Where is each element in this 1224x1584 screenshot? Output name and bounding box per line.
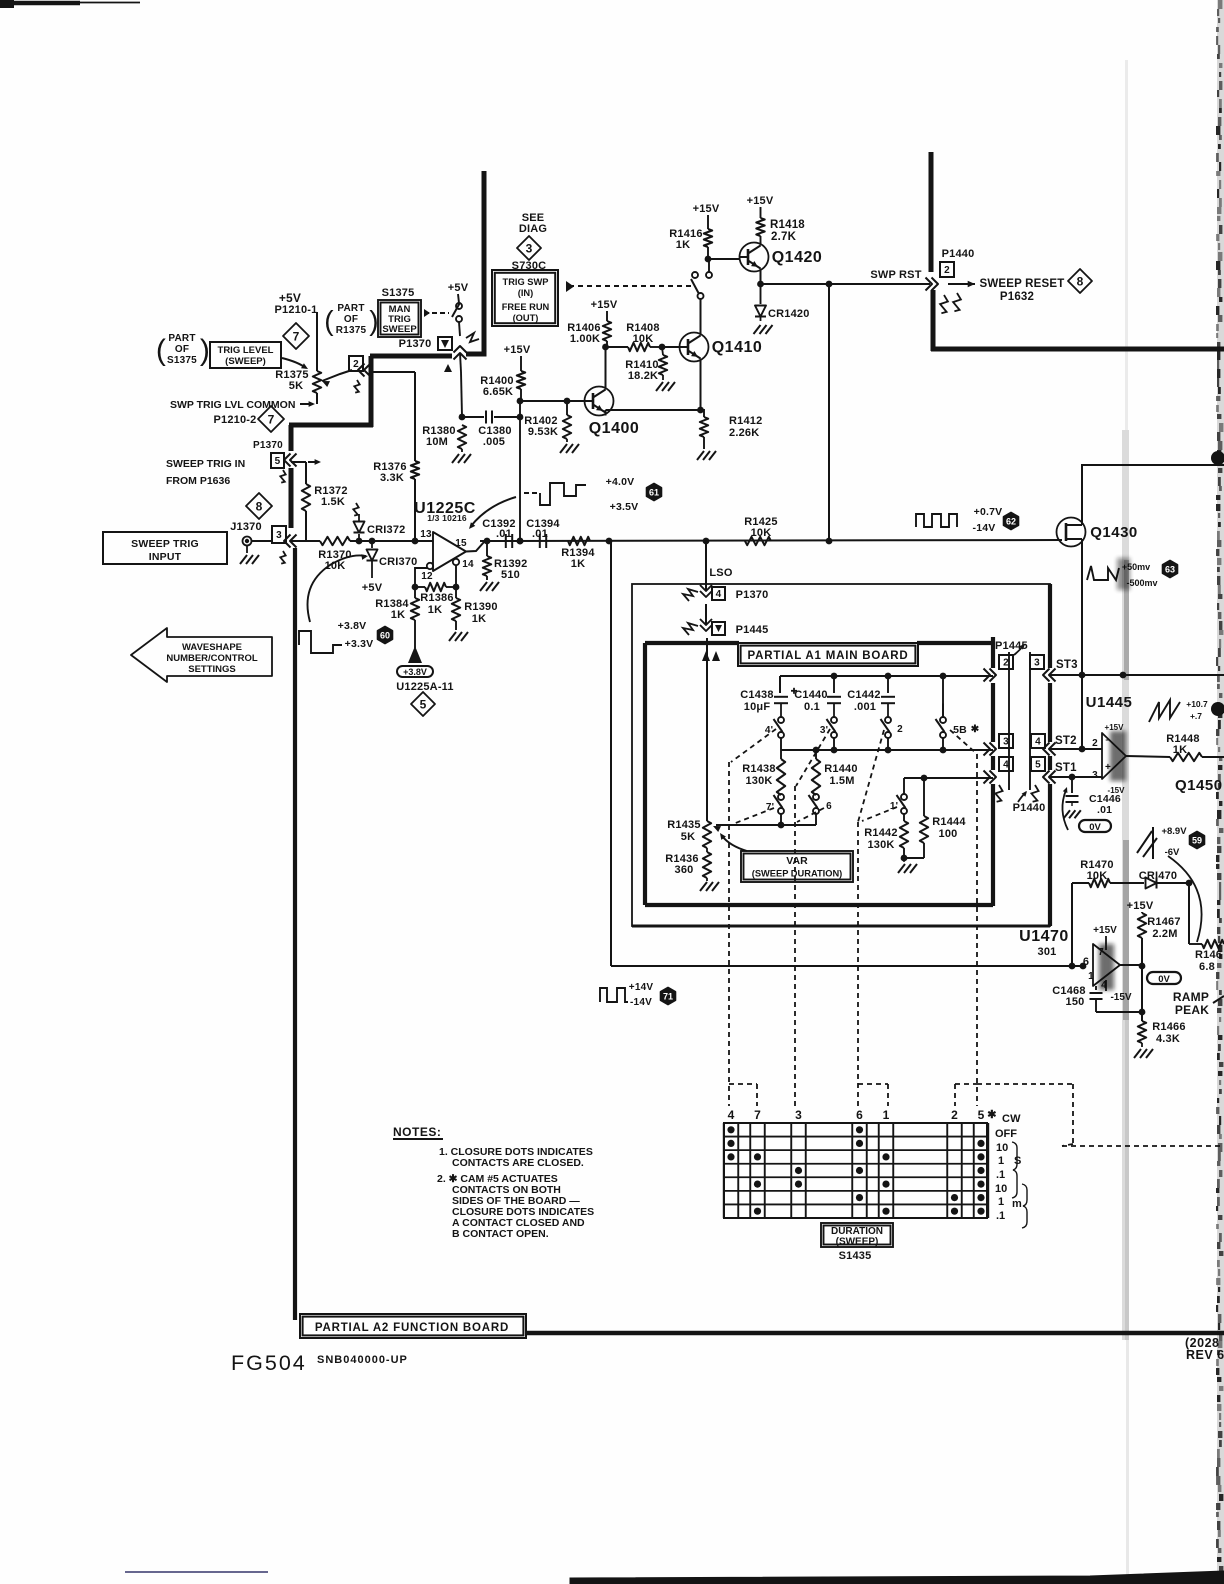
svg-text:12: 12 bbox=[421, 571, 433, 582]
svg-text:5: 5 bbox=[1035, 760, 1041, 771]
svg-text:VAR: VAR bbox=[786, 855, 808, 867]
svg-text:U1225A-11: U1225A-11 bbox=[396, 681, 453, 693]
svg-text:CONTACTS ARE CLOSED.: CONTACTS ARE CLOSED. bbox=[452, 1157, 584, 1169]
svg-text:CR1420: CR1420 bbox=[768, 308, 810, 320]
svg-text:150: 150 bbox=[1066, 996, 1085, 1008]
svg-text:P1632: P1632 bbox=[1000, 291, 1034, 303]
svg-text:OFF: OFF bbox=[995, 1128, 1017, 1140]
svg-text:P1445: P1445 bbox=[736, 624, 769, 636]
svg-text:+14V: +14V bbox=[629, 982, 654, 993]
svg-text:7: 7 bbox=[754, 1108, 761, 1122]
svg-text:15: 15 bbox=[455, 538, 467, 549]
svg-text:.01: .01 bbox=[532, 528, 548, 540]
svg-text:+15V: +15V bbox=[693, 203, 720, 215]
svg-text:ST2: ST2 bbox=[1055, 735, 1077, 747]
svg-text:1K: 1K bbox=[391, 609, 405, 621]
svg-text:+3.3V: +3.3V bbox=[345, 638, 374, 650]
svg-text:130K: 130K bbox=[745, 775, 772, 787]
svg-text:DURATION: DURATION bbox=[831, 1226, 883, 1237]
svg-text:4: 4 bbox=[728, 1108, 735, 1122]
svg-text:SETTINGS: SETTINGS bbox=[188, 664, 236, 675]
svg-text:NOTES:: NOTES: bbox=[393, 1125, 441, 1139]
svg-text:R1438: R1438 bbox=[742, 763, 775, 775]
svg-text:-15V: -15V bbox=[1108, 786, 1126, 795]
svg-text:3: 3 bbox=[1003, 737, 1009, 748]
svg-text:8: 8 bbox=[256, 499, 263, 513]
svg-text:R1418: R1418 bbox=[770, 219, 805, 231]
svg-text:SWEEP TRIG IN: SWEEP TRIG IN bbox=[166, 458, 245, 470]
svg-text:0V: 0V bbox=[1089, 822, 1101, 833]
svg-text:0.1: 0.1 bbox=[804, 701, 820, 713]
svg-text:SWEEP RESET: SWEEP RESET bbox=[979, 278, 1064, 290]
svg-text:2: 2 bbox=[951, 1108, 958, 1122]
svg-text:C1442: C1442 bbox=[847, 689, 880, 701]
svg-text:R1440: R1440 bbox=[824, 763, 857, 775]
svg-text:7: 7 bbox=[293, 329, 300, 343]
svg-text:2.26K: 2.26K bbox=[729, 427, 759, 439]
svg-text:0V: 0V bbox=[1158, 974, 1170, 985]
svg-text:P1210-1: P1210-1 bbox=[275, 304, 318, 316]
svg-text:m: m bbox=[1012, 1198, 1022, 1210]
svg-text:2: 2 bbox=[1092, 738, 1098, 749]
svg-text:R1467: R1467 bbox=[1147, 916, 1180, 928]
svg-text:510: 510 bbox=[501, 569, 520, 581]
svg-text:+10.7: +10.7 bbox=[1186, 699, 1208, 709]
svg-text:1.5K: 1.5K bbox=[321, 496, 345, 508]
svg-text:360: 360 bbox=[675, 864, 694, 876]
svg-text:R146: R146 bbox=[1195, 949, 1222, 961]
svg-text:2: 2 bbox=[944, 265, 950, 276]
svg-text:INPUT: INPUT bbox=[149, 551, 182, 563]
svg-text:10K: 10K bbox=[633, 333, 654, 345]
svg-text:OF: OF bbox=[175, 344, 189, 355]
svg-text:4: 4 bbox=[1035, 737, 1041, 748]
svg-text:10: 10 bbox=[996, 1142, 1008, 1154]
svg-text:100: 100 bbox=[939, 828, 958, 840]
svg-text:+15V: +15V bbox=[504, 344, 531, 356]
svg-text:R1466: R1466 bbox=[1152, 1021, 1185, 1033]
svg-text:3: 3 bbox=[276, 530, 282, 541]
svg-text:2.2M: 2.2M bbox=[1152, 928, 1177, 940]
svg-text:FG504: FG504 bbox=[231, 1351, 307, 1375]
svg-text:5: 5 bbox=[420, 697, 427, 711]
svg-text:1': 1' bbox=[890, 801, 898, 812]
svg-text:1.5M: 1.5M bbox=[829, 775, 854, 787]
svg-text:5K: 5K bbox=[681, 831, 695, 843]
svg-text:71: 71 bbox=[663, 991, 673, 1001]
svg-text:OF: OF bbox=[344, 314, 358, 325]
svg-text:301: 301 bbox=[1038, 946, 1057, 958]
svg-text:PEAK: PEAK bbox=[1175, 1003, 1209, 1017]
svg-text:59: 59 bbox=[1192, 835, 1202, 845]
svg-text:U1445: U1445 bbox=[1086, 694, 1133, 711]
svg-text:FROM P1636: FROM P1636 bbox=[166, 475, 230, 487]
svg-text:1K: 1K bbox=[1173, 744, 1187, 756]
svg-text:ST3: ST3 bbox=[1056, 659, 1078, 671]
svg-text:S1375: S1375 bbox=[167, 355, 197, 366]
svg-text:−: − bbox=[1105, 735, 1110, 745]
svg-text:9.53K: 9.53K bbox=[528, 426, 558, 438]
svg-text:3': 3' bbox=[820, 725, 828, 736]
svg-text:63: 63 bbox=[1165, 564, 1175, 574]
svg-text:TRIG SWP: TRIG SWP bbox=[503, 277, 549, 287]
svg-text:WAVESHAPE: WAVESHAPE bbox=[182, 642, 242, 653]
svg-text:S1375: S1375 bbox=[382, 287, 415, 299]
svg-text:SNB040000-UP: SNB040000-UP bbox=[317, 1354, 408, 1366]
svg-text:130K: 130K bbox=[867, 839, 894, 851]
svg-text:2.7K: 2.7K bbox=[771, 231, 797, 243]
svg-text:CRI372: CRI372 bbox=[367, 524, 406, 536]
svg-text:18.2K: 18.2K bbox=[628, 370, 658, 382]
svg-text:1.00K: 1.00K bbox=[570, 333, 600, 345]
svg-text:SWEEP: SWEEP bbox=[382, 324, 417, 335]
svg-text:5: 5 bbox=[978, 1108, 985, 1122]
svg-text:1: 1 bbox=[1088, 971, 1094, 982]
svg-text:Q1430: Q1430 bbox=[1090, 524, 1138, 541]
svg-text:R1435: R1435 bbox=[667, 819, 700, 831]
svg-text:+4.0V: +4.0V bbox=[606, 476, 635, 488]
svg-text:+8.9V: +8.9V bbox=[1161, 826, 1187, 837]
svg-text:(IN): (IN) bbox=[518, 288, 534, 298]
svg-text:(SWEEP): (SWEEP) bbox=[836, 1237, 879, 1248]
svg-text:(: ( bbox=[324, 305, 334, 336]
svg-text:10: 10 bbox=[995, 1183, 1007, 1195]
svg-text:FREE RUN: FREE RUN bbox=[502, 302, 550, 312]
svg-text:P1370: P1370 bbox=[399, 338, 432, 350]
svg-text:P1210-2: P1210-2 bbox=[214, 414, 257, 426]
svg-text:3: 3 bbox=[526, 241, 533, 255]
svg-text:ST1: ST1 bbox=[1055, 762, 1077, 774]
svg-text:4': 4' bbox=[765, 725, 773, 736]
svg-text:(OUT): (OUT) bbox=[513, 313, 539, 323]
svg-text:✱: ✱ bbox=[987, 1109, 996, 1121]
svg-text:6: 6 bbox=[826, 801, 832, 812]
svg-text:CRI470: CRI470 bbox=[1139, 870, 1178, 882]
svg-text:+15V: +15V bbox=[1093, 925, 1117, 936]
svg-text:REV 6: REV 6 bbox=[1186, 1348, 1224, 1362]
svg-text:R1386: R1386 bbox=[420, 592, 453, 604]
svg-text:.01: .01 bbox=[1097, 804, 1112, 816]
svg-text:-14V: -14V bbox=[630, 997, 652, 1008]
svg-text:3: 3 bbox=[795, 1108, 802, 1122]
svg-text:+5V: +5V bbox=[362, 582, 383, 594]
svg-text:60: 60 bbox=[380, 630, 390, 640]
svg-text:3.3K: 3.3K bbox=[380, 472, 404, 484]
svg-text:.1: .1 bbox=[996, 1210, 1005, 1222]
svg-text:+3.8V: +3.8V bbox=[403, 667, 427, 677]
svg-text:+15V: +15V bbox=[747, 195, 774, 207]
svg-text:-14V: -14V bbox=[973, 522, 996, 534]
svg-text:SWEEP TRIG: SWEEP TRIG bbox=[131, 538, 199, 550]
svg-text:C1438: C1438 bbox=[740, 689, 773, 701]
svg-text:Q1410: Q1410 bbox=[712, 339, 763, 356]
svg-text:SWP RST: SWP RST bbox=[870, 269, 921, 281]
svg-text:P1370: P1370 bbox=[736, 589, 769, 601]
svg-text:1: 1 bbox=[998, 1196, 1004, 1208]
svg-text:Q1420: Q1420 bbox=[772, 249, 823, 266]
svg-text:R1444: R1444 bbox=[932, 816, 966, 828]
svg-text:4: 4 bbox=[1003, 760, 1009, 771]
svg-text:61: 61 bbox=[649, 487, 659, 497]
svg-text:+15V: +15V bbox=[1105, 723, 1125, 732]
svg-text:1K: 1K bbox=[472, 613, 486, 625]
svg-text:10K: 10K bbox=[751, 527, 772, 539]
svg-text:(: ( bbox=[156, 334, 166, 367]
svg-text:CRI370: CRI370 bbox=[379, 556, 418, 568]
svg-text:3: 3 bbox=[1034, 658, 1040, 669]
svg-text:LSO: LSO bbox=[709, 567, 732, 579]
svg-text:.005: .005 bbox=[483, 436, 505, 448]
svg-text:Q1450: Q1450 bbox=[1175, 777, 1223, 794]
svg-text:B CONTACT OPEN.: B CONTACT OPEN. bbox=[452, 1228, 549, 1240]
svg-text:4: 4 bbox=[716, 589, 722, 600]
svg-text:NUMBER/CONTROL: NUMBER/CONTROL bbox=[166, 653, 257, 664]
svg-text:+5V: +5V bbox=[448, 282, 469, 294]
svg-text:PARTIAL A2 FUNCTION BOARD: PARTIAL A2 FUNCTION BOARD bbox=[315, 1322, 509, 1334]
svg-text:R1375: R1375 bbox=[336, 325, 367, 336]
svg-text:+5V: +5V bbox=[279, 291, 301, 305]
svg-text:✱: ✱ bbox=[971, 724, 980, 735]
svg-text:): ) bbox=[200, 334, 210, 367]
svg-text:7: 7 bbox=[268, 412, 275, 426]
svg-text:6.8: 6.8 bbox=[1199, 961, 1215, 973]
svg-text:J1370: J1370 bbox=[230, 521, 262, 533]
svg-text:PARTIAL A1 MAIN BOARD: PARTIAL A1 MAIN BOARD bbox=[748, 650, 909, 662]
svg-text:RAMP: RAMP bbox=[1173, 990, 1209, 1004]
svg-text:6.65K: 6.65K bbox=[483, 386, 513, 398]
svg-text:1: 1 bbox=[883, 1108, 890, 1122]
svg-text:Q1400: Q1400 bbox=[589, 420, 640, 437]
svg-text:S1435: S1435 bbox=[839, 1250, 872, 1262]
svg-text:PART: PART bbox=[337, 303, 364, 314]
svg-text:10M: 10M bbox=[426, 436, 448, 448]
svg-text:+15V: +15V bbox=[591, 299, 618, 311]
svg-text:5: 5 bbox=[275, 456, 281, 467]
svg-text:P1440: P1440 bbox=[1013, 802, 1046, 814]
svg-text:(SWEEP): (SWEEP) bbox=[225, 356, 266, 367]
svg-text:10μF: 10μF bbox=[744, 701, 771, 713]
svg-text:SWP TRIG LVL COMMON: SWP TRIG LVL COMMON bbox=[170, 399, 295, 411]
svg-text:+3.5V: +3.5V bbox=[610, 501, 639, 513]
svg-text:PART: PART bbox=[168, 333, 195, 344]
svg-text:+.7: +.7 bbox=[1190, 711, 1202, 721]
svg-text:U1470: U1470 bbox=[1019, 928, 1069, 945]
svg-text:+3.8V: +3.8V bbox=[338, 620, 367, 632]
svg-text:4.3K: 4.3K bbox=[1156, 1033, 1180, 1045]
svg-text:C1440: C1440 bbox=[794, 689, 827, 701]
svg-text:1/3 10216: 1/3 10216 bbox=[427, 513, 467, 523]
svg-text:10K: 10K bbox=[1087, 870, 1108, 882]
svg-text:R1442: R1442 bbox=[864, 827, 897, 839]
svg-text:5B: 5B bbox=[953, 724, 967, 736]
svg-text:-15V: -15V bbox=[1110, 992, 1131, 1003]
svg-text:P1440: P1440 bbox=[942, 248, 975, 260]
svg-text:R1390: R1390 bbox=[464, 601, 497, 613]
svg-text:2: 2 bbox=[1003, 658, 1009, 669]
svg-text:TRIG LEVEL: TRIG LEVEL bbox=[218, 345, 274, 356]
svg-text:2: 2 bbox=[897, 724, 903, 735]
svg-text:1K: 1K bbox=[428, 604, 442, 616]
svg-text:(SWEEP DURATION): (SWEEP DURATION) bbox=[752, 869, 843, 879]
svg-text:8: 8 bbox=[1077, 274, 1084, 288]
svg-text:+15V: +15V bbox=[1127, 900, 1154, 912]
svg-text:14: 14 bbox=[462, 559, 474, 570]
svg-text:.01: .01 bbox=[496, 528, 512, 540]
svg-text:DIAG: DIAG bbox=[519, 223, 547, 235]
svg-text:6: 6 bbox=[856, 1108, 863, 1122]
svg-text:5K: 5K bbox=[289, 380, 303, 392]
svg-text:13: 13 bbox=[420, 529, 432, 540]
svg-text:CW: CW bbox=[1002, 1113, 1021, 1125]
svg-text:3: 3 bbox=[1092, 770, 1098, 781]
svg-text:.1: .1 bbox=[996, 1169, 1005, 1181]
svg-text:.001: .001 bbox=[854, 701, 876, 713]
svg-text:62: 62 bbox=[1006, 516, 1016, 526]
svg-text:-500mv: -500mv bbox=[1126, 578, 1157, 588]
svg-text:-6V: -6V bbox=[1165, 847, 1180, 858]
svg-text:R1412: R1412 bbox=[729, 415, 762, 427]
svg-text:P1370: P1370 bbox=[253, 440, 283, 451]
svg-text:+0.7V: +0.7V bbox=[974, 506, 1003, 518]
svg-text:1: 1 bbox=[998, 1155, 1004, 1167]
svg-text:1K: 1K bbox=[571, 558, 585, 570]
svg-text:1K: 1K bbox=[676, 239, 690, 251]
